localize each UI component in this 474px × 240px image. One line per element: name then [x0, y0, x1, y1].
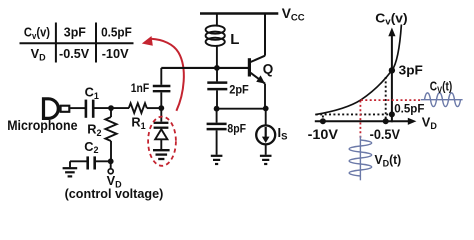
svg-text:0.5pF: 0.5pF: [394, 102, 425, 116]
svg-text:L: L: [230, 31, 239, 48]
svg-text:1nF: 1nF: [131, 81, 149, 95]
svg-text:-0.5V: -0.5V: [370, 127, 400, 142]
svg-text:8pF: 8pF: [227, 121, 246, 135]
svg-text:3pF: 3pF: [64, 24, 86, 39]
svg-text:Cv(v): Cv(v): [375, 10, 407, 26]
svg-text:Q: Q: [263, 62, 274, 77]
svg-text:Microphone: Microphone: [7, 117, 78, 133]
svg-text:(control voltage): (control voltage): [65, 186, 164, 201]
svg-text:-10V: -10V: [102, 46, 129, 61]
svg-text:0.5pF: 0.5pF: [101, 24, 132, 39]
svg-text:Cv(v): Cv(v): [24, 24, 50, 40]
svg-text:3pF: 3pF: [399, 63, 423, 78]
svg-text:2pF: 2pF: [229, 83, 249, 97]
svg-text:-0.5V: -0.5V: [59, 46, 90, 61]
svg-text:-10V: -10V: [308, 127, 338, 142]
